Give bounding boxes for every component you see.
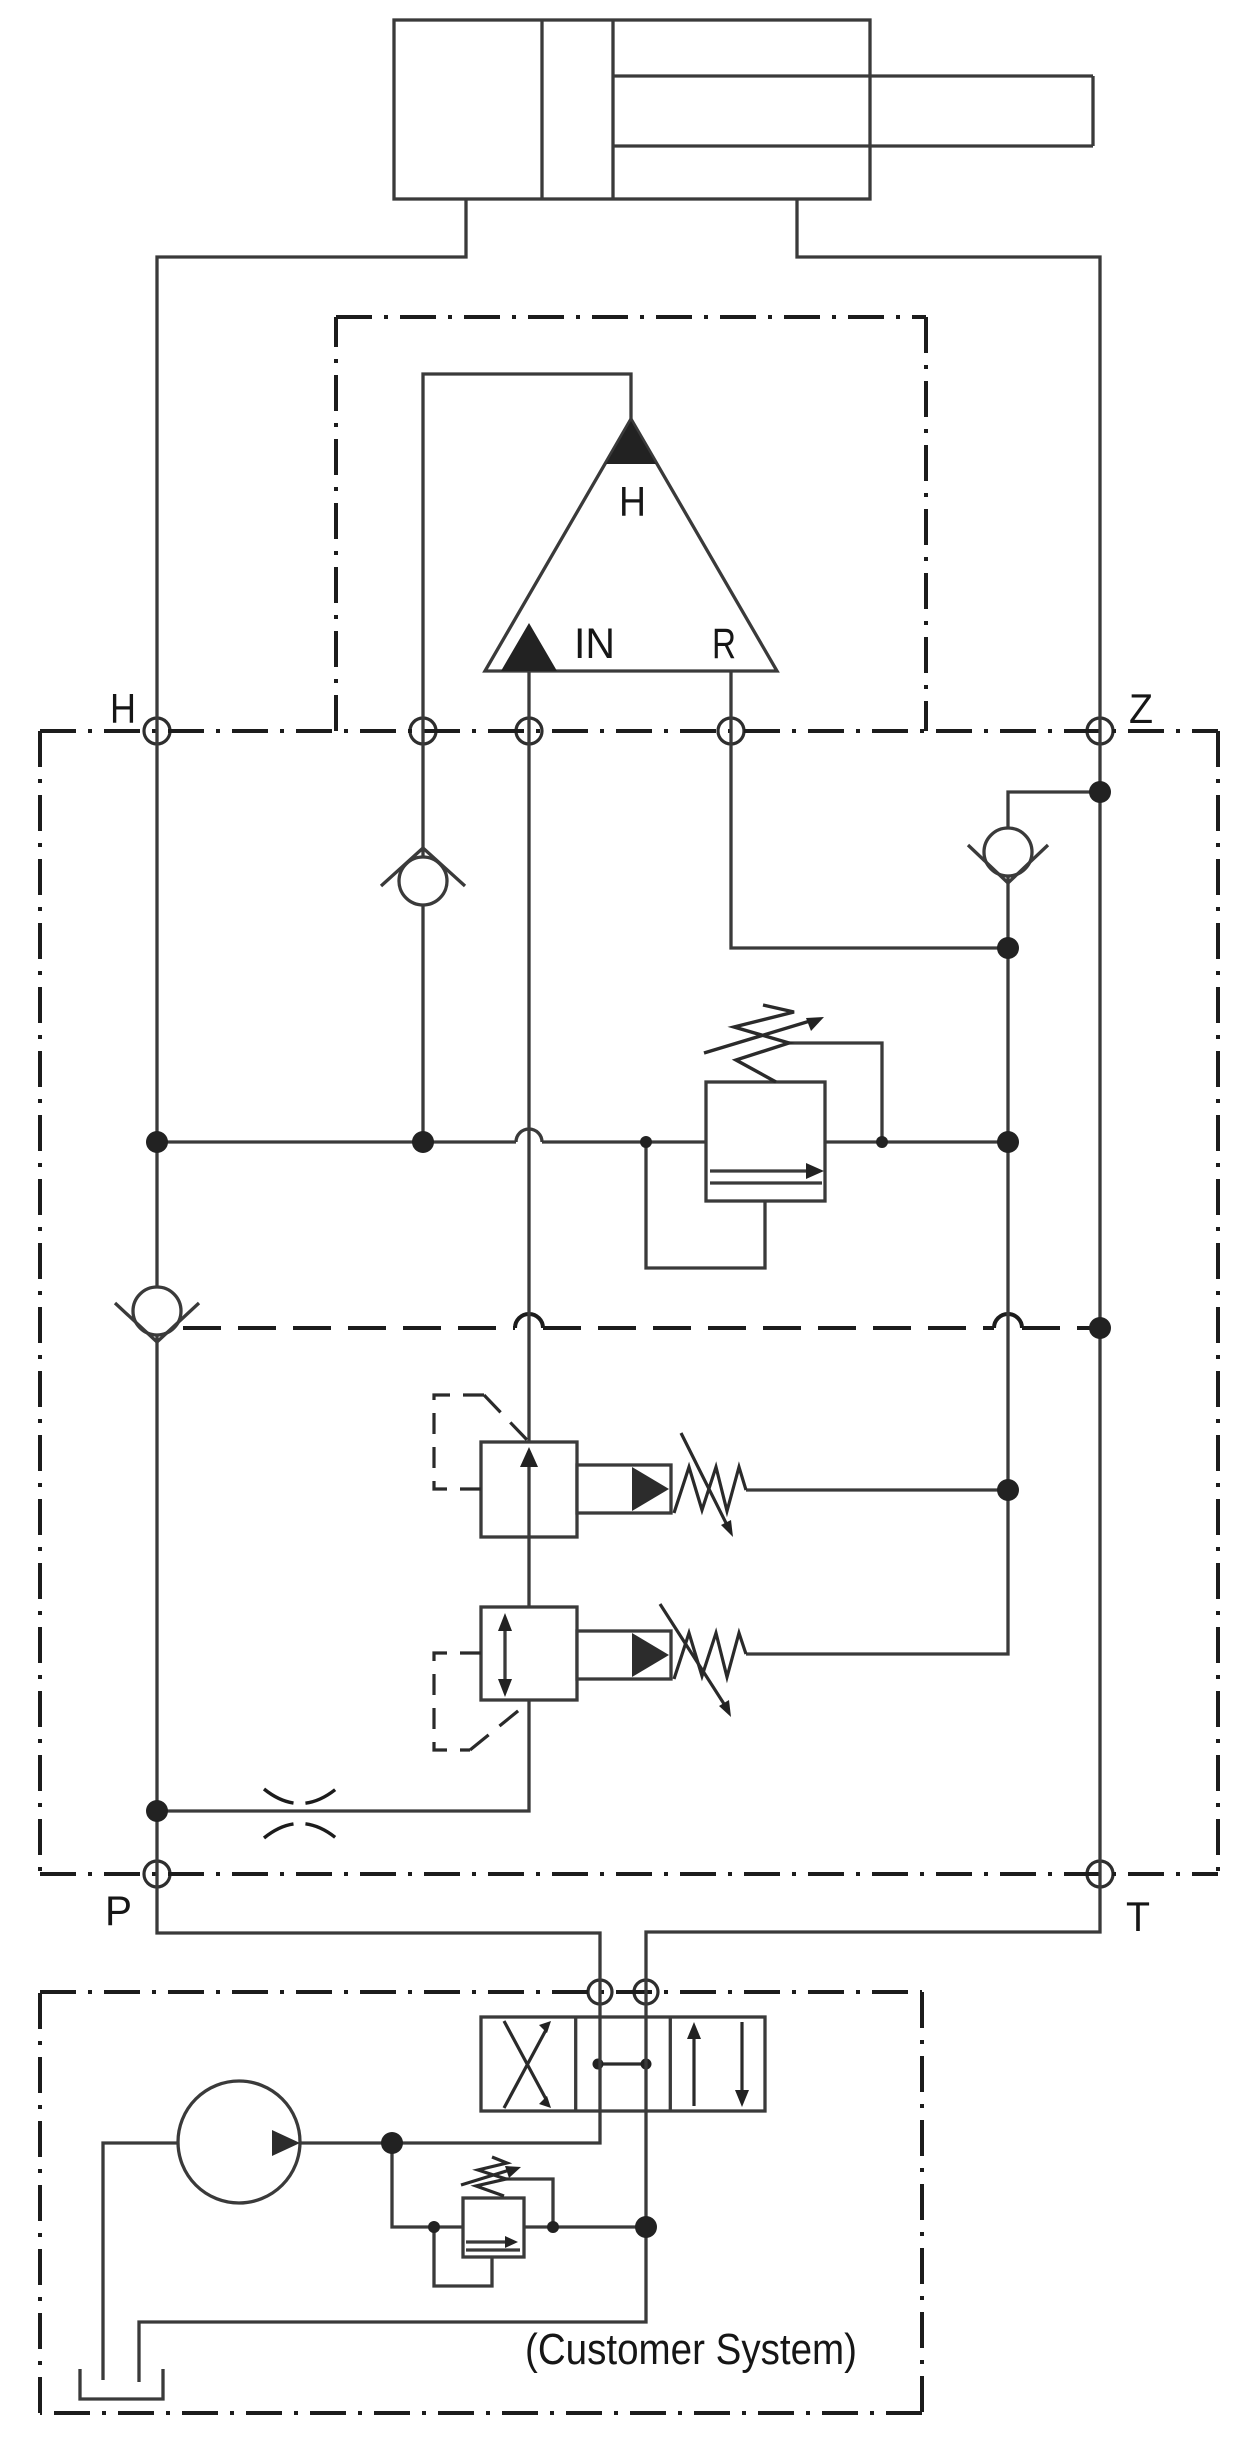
wire: cylinder cap-end to H port, P line down left side xyxy=(157,199,600,2017)
wire: relief valve drain loop xyxy=(646,1142,765,1268)
customer port A xyxy=(588,1980,612,2004)
left position crossed arrows xyxy=(504,2028,547,2108)
wire: cylinder rod-end to Z port, down right side to T xyxy=(646,199,1100,2017)
centre position connector xyxy=(598,2062,646,2065)
svg-text:IN: IN xyxy=(574,620,615,668)
junction node bus-CV1 xyxy=(412,1131,434,1153)
proportional pressure valve V1 xyxy=(434,1395,746,1537)
right position straight arrows xyxy=(692,2031,695,2106)
junction node RV2 drain xyxy=(428,2221,440,2233)
hydraulic cylinder xyxy=(394,20,1093,199)
port Z xyxy=(1087,718,1113,744)
junction node RV2 pilot xyxy=(547,2221,559,2233)
wire: pump output to directional valve xyxy=(300,2111,600,2143)
orifice (dashed restriction) xyxy=(264,1789,336,1838)
line hop over IN line on bus xyxy=(516,1129,542,1142)
junction node V1 spring line xyxy=(997,1479,1019,1501)
wire: intensifier H output to check valve line xyxy=(423,374,631,1142)
junction node bus-right xyxy=(997,1131,1019,1153)
port H xyxy=(144,718,170,744)
svg-text:P: P xyxy=(105,1887,132,1934)
svg-text:Z: Z xyxy=(1129,685,1153,732)
pump xyxy=(178,2081,300,2203)
svg-text:(Customer System): (Customer System) xyxy=(525,2325,857,2374)
junction node RV1 drain xyxy=(640,1136,652,1148)
line hop over Z branch on dashed line xyxy=(994,1314,1022,1328)
junction node RV1 pilot xyxy=(876,1136,888,1148)
wire: T return to tank xyxy=(139,2111,646,2382)
wire: pump suction from tank xyxy=(103,2143,178,2380)
intensifier sub-block boundary (dash-dot) xyxy=(336,317,926,731)
directional control valve 4/3 xyxy=(481,2017,765,2111)
customer system boundary (dash-dot box) xyxy=(40,1992,922,2413)
svg-text:R: R xyxy=(712,620,736,668)
svg-text:H: H xyxy=(110,685,136,732)
proportional throttle valve V2 xyxy=(434,1604,746,1750)
port X2 (intensifier IN line) xyxy=(516,718,542,744)
check valve CV1 (H branch) xyxy=(381,848,465,905)
port T xyxy=(1087,1861,1113,1887)
pressure intensifier triangle xyxy=(485,419,777,671)
wire: intensifier R line to Z branch xyxy=(731,671,1008,948)
port X1 (intensifier H line) xyxy=(410,718,436,744)
wire: relief valve pilot line xyxy=(789,1043,882,1142)
tank xyxy=(80,2369,163,2399)
junction node Z-branch top xyxy=(1089,781,1111,803)
wire: intensifier IN line down through valves xyxy=(157,671,529,1811)
svg-text:H: H xyxy=(619,478,646,525)
junction node bus-left xyxy=(146,1131,168,1153)
internal drain dashed line (mid separator) xyxy=(183,1326,1100,1330)
customer port B xyxy=(634,1980,658,2004)
wire: main bus at relief valve level with hop xyxy=(157,1140,1008,1143)
wire: pump relief branch xyxy=(392,2143,646,2286)
svg-text:T: T xyxy=(1126,1893,1150,1940)
junction node R-join xyxy=(997,937,1019,959)
wire: Z branch with check valve and solenoid pilot lines xyxy=(746,792,1100,1654)
junction node drain-line Z xyxy=(1089,1317,1111,1339)
junction node orifice-P xyxy=(146,1800,168,1822)
manifold block boundary (dash-dot box) xyxy=(40,731,1218,1874)
line hop over IN line on dashed line xyxy=(515,1314,543,1328)
check valve CV2 (P branch) xyxy=(115,1287,199,1342)
junction node pump outlet xyxy=(381,2132,403,2154)
pump relief valve RV2 xyxy=(461,2157,524,2257)
check valve CV3 (Z branch) xyxy=(968,828,1048,883)
pilot operated relief valve RV1 xyxy=(704,1005,825,1201)
port P xyxy=(144,1861,170,1887)
P and T passages through centre box xyxy=(598,2017,601,2111)
port X3 (intensifier R line) xyxy=(718,718,744,744)
junction node RV2 outlet xyxy=(635,2216,657,2238)
